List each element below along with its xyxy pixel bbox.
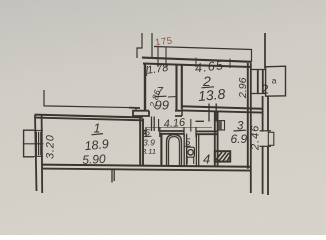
exterior top wall of rooms 7 and 2: [142, 58, 252, 62]
room 1 left wall: [35, 115, 37, 191]
room 6 door jamb left: [145, 127, 147, 137]
tick above room 4: [196, 120, 205, 122]
meter box divider: [220, 121, 222, 130]
toilet tank box: [187, 147, 195, 157]
fraction line of room 7 label: [155, 95, 167, 98]
door jamb tick B of room 2 door: [215, 104, 217, 122]
tick on top wall right of 4.65: [229, 59, 231, 69]
dark segment at right end of contour: [129, 107, 140, 109]
ventilation shaft hatched box: [215, 151, 230, 161]
dimension tick a under 175: [157, 47, 159, 67]
room 7 right wall: [175, 65, 177, 111]
building outer right wall line 2: [267, 96, 269, 195]
corridor door jamb to room 1: [152, 117, 155, 132]
stub below bottom wall: [112, 169, 114, 183]
toilet bowl ring: [188, 150, 193, 155]
entrance door gap in outer wall: [261, 132, 269, 146]
bath block top wall: [143, 130, 218, 133]
entrance door top tick: [260, 130, 272, 132]
room 1 top wall: [35, 115, 143, 118]
window mid rail: [23, 143, 44, 145]
balcony window sill lines: [251, 70, 265, 94]
apartment right wall (inner line): [247, 63, 249, 169]
wall between room 1 and bath block: [139, 119, 141, 166]
partition wc5 / room4: [196, 134, 198, 166]
room 5 door jamb right: [195, 127, 197, 137]
upper thin contour vertical: [151, 33, 153, 58]
balcony box 2a: [266, 66, 286, 96]
wall room4 / hall: [215, 112, 218, 167]
building outer right wall line 1: [262, 96, 264, 194]
window bottom rail: [34, 155, 43, 157]
small meter box on hall wall: [218, 121, 224, 130]
room 2 underline: [202, 87, 215, 88]
upper thin contour horizontal: [154, 47, 252, 63]
outer wall vertical above balcony: [264, 33, 266, 69]
dimension tick b under 175: [165, 47, 167, 67]
room 2 left wall: [181, 65, 183, 109]
room 2 bottom wall: [182, 106, 262, 109]
corridor dim tick right: [190, 119, 192, 132]
bottom wall of apartment: [42, 165, 250, 167]
corridor dimension line 4.16: [147, 126, 212, 128]
room 7 bottom-right wall foot: [175, 111, 182, 116]
toilet bowl front: [187, 157, 194, 164]
partition bath / wc5: [184, 134, 186, 166]
entrance door bottom tick: [260, 145, 272, 147]
room 5 door jamb left: [183, 127, 185, 137]
room 5 underline: [184, 145, 190, 147]
bathtub outer: [167, 135, 182, 166]
ventilation shaft hatching: [216, 152, 230, 161]
balcony window glazing: [258, 70, 263, 94]
door jamb tick A of room 2 door: [208, 104, 210, 122]
thin contour above room 1: [44, 90, 136, 111]
window top rail: [34, 129, 43, 131]
window glazing of room 1: [36, 132, 40, 156]
room 6 underline: [144, 135, 152, 138]
room 7 left wall: [144, 64, 146, 110]
room 6 door jamb right: [159, 127, 161, 137]
tick on top wall left of 4.65: [195, 58, 197, 68]
entrance door outer leaf: [268, 132, 274, 145]
partition room6 / bath: [160, 134, 162, 166]
handwritten labels: [45, 35, 277, 167]
room 1 underline: [92, 134, 104, 135]
upper thin contour left step: [137, 33, 142, 58]
window box of room 1: [24, 130, 34, 157]
bathtub inner: [169, 137, 180, 166]
dim tick left of 1.78: [147, 66, 148, 76]
hall underline: [234, 129, 247, 132]
tick right of room 7 label: [168, 96, 177, 99]
room 7 bottom-left wall foot: [133, 111, 149, 116]
corridor dim tick left: [158, 119, 160, 132]
jog between room7 and room2 bottom walls: [181, 106, 183, 116]
